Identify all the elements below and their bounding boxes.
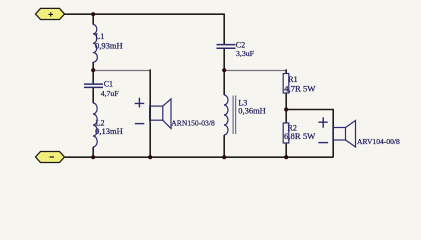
- inductor L1: [93, 25, 97, 63]
- junction bottom woofer: [148, 155, 152, 159]
- wire node C branch: [286, 110, 333, 158]
- svg-text:6,8R 5W: 6,8R 5W: [284, 131, 316, 141]
- resistor R2: [283, 123, 289, 143]
- junction bottom L2: [91, 155, 95, 159]
- svg-text:4,7R 5W: 4,7R 5W: [284, 83, 316, 93]
- wire node B branch (gray): [224, 70, 286, 72]
- wire node A branch (gray): [93, 70, 150, 72]
- wire woofer vertical: [149, 69, 151, 157]
- junction bottom L3: [222, 155, 226, 159]
- svg-text:ARN150-03/8: ARN150-03/8: [171, 118, 215, 127]
- svg-text:0,36mH: 0,36mH: [238, 105, 266, 115]
- wire C1 to L2: [92, 88, 94, 104]
- capacitor C2: [217, 45, 236, 49]
- wire node B to L3: [223, 70, 225, 95]
- wire L1 top stub: [92, 14, 94, 25]
- svg-text:3,3uF: 3,3uF: [236, 49, 255, 58]
- wire node A to C1: [92, 70, 94, 84]
- plus mark tweeter: [318, 117, 327, 128]
- junction node B: [222, 68, 226, 72]
- junction bottom R2: [284, 155, 288, 159]
- wire L2 to bottom: [92, 147, 94, 158]
- terminal - (input negative): [36, 152, 65, 163]
- minus mark woofer: [135, 123, 145, 125]
- core of L3: [233, 96, 236, 135]
- resistor R1: [283, 74, 289, 94]
- svg-text:0,93mH: 0,93mH: [95, 40, 123, 50]
- svg-text:4,7uF: 4,7uF: [101, 89, 120, 98]
- wire R2 bottom to bottom main: [285, 143, 287, 158]
- speaker LS2 (tweeter): [333, 121, 356, 148]
- wire R1 top stub: [285, 69, 287, 73]
- svg-text:ARV104-00/8: ARV104-00/8: [357, 137, 400, 146]
- junction node C: [284, 107, 288, 111]
- wire top main: [65, 13, 225, 15]
- minus mark tweeter: [318, 142, 328, 144]
- svg-text:0,13mH: 0,13mH: [95, 126, 123, 136]
- wire C2 to node B: [223, 48, 225, 70]
- wire node C to R2: [285, 110, 287, 124]
- inductor L2: [93, 103, 97, 147]
- terminal + (input positive): [36, 8, 65, 19]
- inductor L3: [224, 95, 228, 135]
- capacitor C1: [84, 84, 103, 87]
- svg-text:C1: C1: [104, 80, 113, 89]
- plus mark woofer: [135, 98, 145, 108]
- wire R1 bottom to node C: [285, 93, 287, 110]
- speaker LS1 (woofer): [150, 99, 171, 129]
- wire bottom main: [65, 156, 333, 158]
- junction at top of L1: [91, 12, 95, 16]
- wire C2 top drop: [223, 14, 225, 45]
- wire L1 to node A: [92, 62, 94, 70]
- wire L3 to bottom: [223, 135, 225, 158]
- junction node A: [91, 68, 95, 72]
